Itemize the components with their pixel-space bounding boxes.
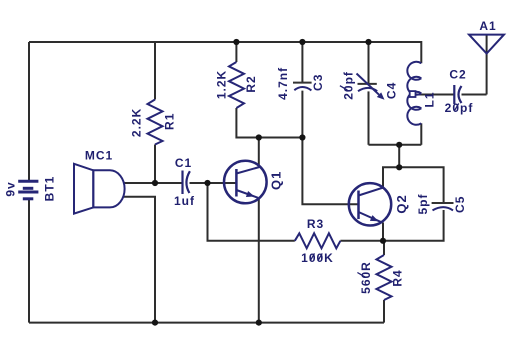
svg-text:9v: 9v bbox=[3, 181, 17, 196]
svg-text:A1: A1 bbox=[479, 19, 496, 33]
svg-text:100K: 100K bbox=[301, 251, 334, 265]
svg-text:C1: C1 bbox=[175, 156, 192, 170]
svg-text:C3: C3 bbox=[311, 74, 325, 91]
svg-text:MC1: MC1 bbox=[85, 149, 113, 163]
svg-text:R4: R4 bbox=[391, 269, 405, 286]
svg-text:Q2: Q2 bbox=[394, 194, 409, 213]
svg-text:C2: C2 bbox=[449, 68, 466, 82]
svg-text:R2: R2 bbox=[244, 75, 258, 92]
svg-text:C5: C5 bbox=[453, 196, 467, 213]
svg-text:R3: R3 bbox=[307, 217, 324, 231]
svg-text:2.2K: 2.2K bbox=[130, 108, 144, 137]
svg-text:20pf: 20pf bbox=[445, 101, 474, 115]
svg-text:560R: 560R bbox=[359, 261, 373, 294]
svg-text:BT1: BT1 bbox=[43, 176, 57, 202]
svg-text:4.7nf: 4.7nf bbox=[276, 67, 290, 100]
svg-text:1.2K: 1.2K bbox=[215, 70, 229, 99]
svg-text:20pf: 20pf bbox=[342, 71, 356, 100]
svg-text:Q1: Q1 bbox=[269, 171, 284, 190]
svg-text:L1: L1 bbox=[423, 91, 437, 107]
svg-text:C4: C4 bbox=[385, 82, 399, 99]
svg-text:5pf: 5pf bbox=[416, 193, 430, 214]
svg-text:1uf: 1uf bbox=[174, 194, 195, 208]
svg-text:R1: R1 bbox=[163, 113, 177, 130]
